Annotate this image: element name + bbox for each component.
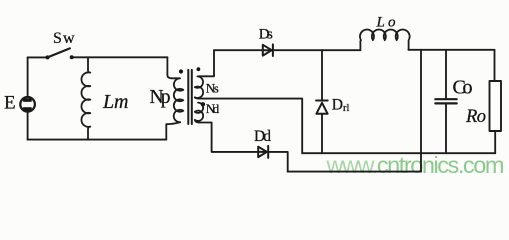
diode Ds bbox=[263, 44, 273, 56]
svg-text:www.cntronics.com: www.cntronics.com bbox=[326, 152, 504, 178]
svg-text:Drl: Drl bbox=[332, 97, 350, 115]
wire Ro bottom lead bbox=[494, 131, 496, 153]
wire Drl anode branch from top rail bbox=[321, 50, 323, 100]
capacitor Co branch lower bbox=[445, 105, 447, 154]
wire Dd cathode to lower return rail bbox=[268, 152, 288, 172]
switch Sw right terminal bbox=[70, 55, 74, 59]
svg-text:Lm: Lm bbox=[102, 91, 129, 113]
svg-text:Dd: Dd bbox=[254, 128, 271, 145]
diode Dd bbox=[258, 146, 268, 158]
transformer core bar right bbox=[191, 70, 193, 124]
wire secondary top rail to Ds bbox=[214, 49, 263, 51]
wire top rail from switch to primary corner bbox=[72, 56, 168, 58]
wire Drl cathode branch to bottom rail bbox=[321, 114, 323, 154]
svg-text:Ns: Ns bbox=[206, 81, 219, 96]
source E top plate bbox=[23, 98, 32, 102]
wire secondary bottom rail bbox=[302, 152, 495, 154]
switch Sw left terminal bbox=[46, 55, 50, 59]
wire left vertical lower (E bottom to bottom rail) bbox=[27, 112, 29, 140]
Nd polarity dot bbox=[201, 102, 205, 106]
svg-text:Lo: Lo bbox=[376, 14, 397, 30]
svg-text:Co: Co bbox=[453, 76, 473, 98]
switch Sw blade bbox=[48, 48, 70, 57]
svg-text:Np: Np bbox=[150, 87, 171, 108]
svg-text:E: E bbox=[4, 93, 16, 114]
capacitor Co branch upper bbox=[445, 50, 447, 98]
capacitor Co top plate bbox=[435, 98, 456, 100]
wire Nd bottom lead down to Dd bbox=[199, 123, 258, 152]
wire top rail Lo to right corner bbox=[408, 49, 494, 51]
inductor Lo bbox=[360, 30, 410, 51]
diode Drl bbox=[316, 101, 328, 114]
secondary winding Nd bbox=[195, 103, 203, 123]
inductor Lm bbox=[81, 57, 90, 139]
wire output-node vertical (top rail to lower rail) bbox=[420, 50, 422, 172]
Ns polarity dot bbox=[197, 67, 201, 71]
capacitor Co bottom plate bbox=[435, 102, 456, 104]
wire Ns bottom lead to node bbox=[199, 99, 303, 154]
wire top rail Ds to Lo bbox=[273, 49, 361, 51]
wire bottom-left rail bbox=[28, 139, 167, 141]
source E circle bbox=[20, 97, 35, 112]
svg-text:Ds: Ds bbox=[259, 26, 273, 42]
source E bottom plate bbox=[23, 107, 32, 111]
primary polarity dot bbox=[179, 69, 183, 73]
svg-text:Sw: Sw bbox=[53, 30, 75, 47]
wire lower return rail bbox=[288, 171, 421, 173]
secondary winding Ns bbox=[195, 76, 203, 98]
svg-text:Nd: Nd bbox=[206, 101, 220, 116]
resistor Ro bbox=[490, 81, 502, 131]
wire top rail left segment to switch bbox=[28, 56, 48, 58]
wire Ro top lead bbox=[494, 50, 496, 81]
transformer core bar left bbox=[187, 70, 189, 124]
transformer primary winding Np bbox=[166, 57, 183, 139]
wire left vertical upper (E top to top rail) bbox=[27, 57, 29, 97]
wire Ns top lead up to secondary top rail bbox=[199, 50, 215, 76]
svg-text:Ro: Ro bbox=[465, 107, 486, 127]
